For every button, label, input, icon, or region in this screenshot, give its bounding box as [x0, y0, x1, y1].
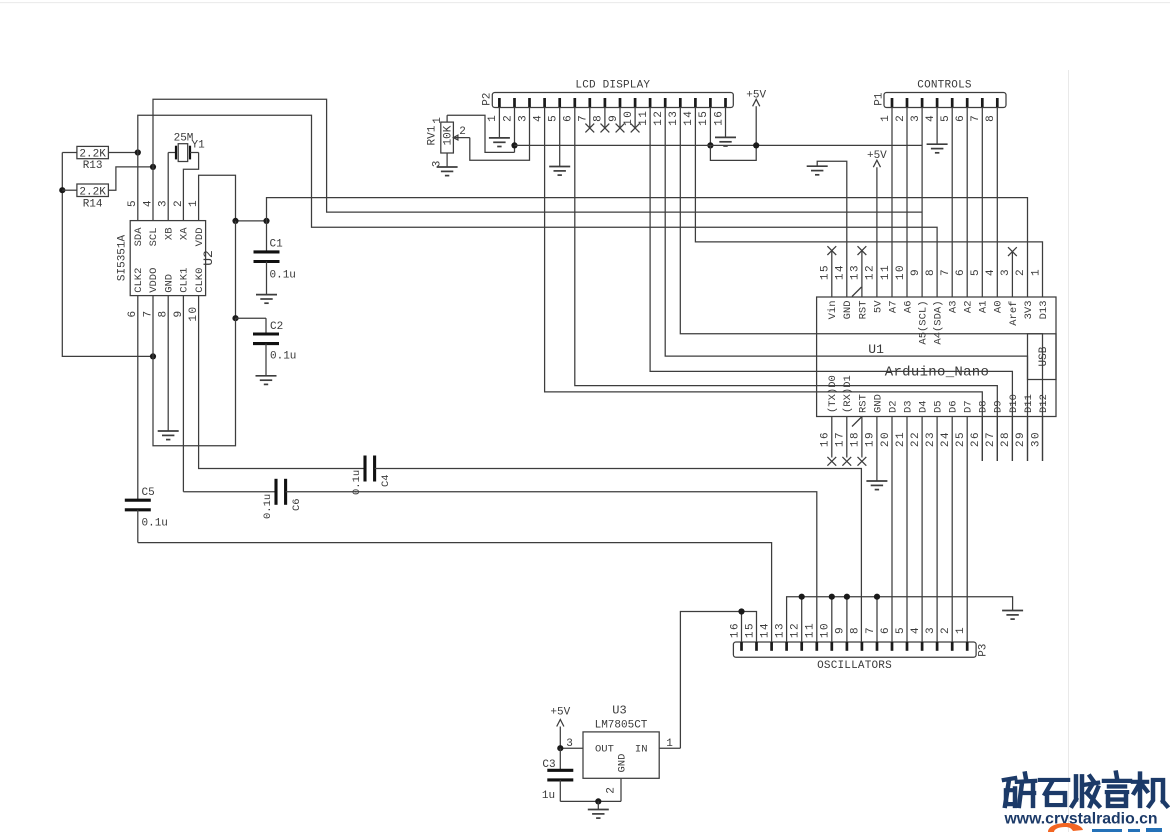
ic U1 Arduino_Nano body	[817, 297, 1056, 417]
P1 pin4 wire	[936, 107, 938, 144]
svg-text:2: 2	[173, 199, 185, 207]
svg-text:D6: D6	[948, 400, 960, 413]
svg-text:5: 5	[127, 199, 139, 207]
svg-text:23: 23	[925, 431, 937, 447]
U3 pin3 lead	[560, 738, 583, 750]
svg-text:15: 15	[820, 264, 832, 280]
U1 RST bottom pin decoration	[852, 417, 862, 427]
svg-text:D2: D2	[887, 400, 899, 413]
svg-text:13: 13	[668, 110, 680, 126]
svg-text:D8: D8	[978, 400, 990, 413]
svg-text:U2: U2	[201, 250, 216, 266]
P1 pin pads	[892, 98, 997, 107]
junction dot U3 out	[557, 745, 563, 751]
wire P3 pin9 to ground bus	[846, 597, 848, 642]
junction dot R14-SCL	[150, 164, 156, 170]
svg-text:C3: C3	[542, 759, 555, 771]
svg-text:5: 5	[895, 626, 907, 634]
U2 pin numbers	[127, 199, 200, 322]
svg-text:7: 7	[578, 114, 590, 122]
U1 pin numbers	[820, 264, 1043, 447]
capacitor C2	[253, 318, 296, 375]
svg-text:11: 11	[805, 622, 817, 638]
svg-text:7: 7	[970, 114, 982, 122]
junction dot P3 pin16	[738, 608, 744, 614]
capacitor C6	[262, 479, 303, 519]
svg-text:2.2K: 2.2K	[79, 186, 106, 198]
P2 pin14 wire to D13	[695, 107, 1042, 297]
wire P3 pin7 to ground bus	[876, 597, 878, 642]
ground U3	[588, 810, 609, 819]
wire C6 to P3 pin11	[286, 492, 817, 642]
svg-text:0.1u: 0.1u	[142, 518, 168, 530]
junction dot P3 pin12	[799, 594, 805, 600]
junction dot U3 ground node	[595, 798, 601, 804]
P2 pin12 wire to D11	[665, 107, 1027, 461]
wire C5 to P3 pin14	[138, 543, 772, 642]
U3 pin2 lead	[606, 778, 622, 801]
U2 pin labels	[133, 227, 206, 293]
wire VDD node to C1 node	[236, 220, 267, 222]
svg-text:RST: RST	[857, 394, 869, 413]
svg-text:9: 9	[608, 114, 620, 122]
svg-text:16: 16	[713, 110, 725, 126]
P1 pin8 wire to A0	[996, 107, 998, 297]
svg-text:2.2K: 2.2K	[79, 149, 106, 161]
svg-text:Vin: Vin	[827, 301, 839, 320]
svg-text:LCD DISPLAY: LCD DISPLAY	[575, 79, 650, 91]
Nano D1 no-connect	[842, 417, 851, 466]
wire P3 pin12 to ground bus	[801, 597, 803, 642]
svg-text:4: 4	[925, 114, 937, 122]
svg-text:1: 1	[188, 199, 200, 207]
svg-text:U3: U3	[612, 704, 626, 718]
svg-text:Aref: Aref	[1008, 301, 1020, 326]
svg-text:12: 12	[790, 622, 802, 638]
ground Nano top GND	[807, 166, 828, 175]
Nano Aref no-connect	[1008, 247, 1017, 297]
wire 3V3 supply run (C1 node to Nano 3V3)	[267, 198, 1028, 297]
svg-text:CLK0: CLK0	[194, 268, 206, 293]
svg-text:27: 27	[985, 431, 997, 447]
svg-text:2: 2	[459, 126, 466, 138]
P3 pin numbers	[729, 622, 967, 638]
svg-text:USB: USB	[1038, 346, 1050, 366]
resistor R13	[62, 146, 138, 171]
svg-text:SDA: SDA	[133, 227, 145, 247]
svg-text:22: 22	[910, 431, 922, 447]
wire VDDO loop	[153, 296, 236, 446]
svg-text:3V3: 3V3	[1023, 301, 1035, 320]
ground below C1	[256, 295, 277, 304]
svg-text:C4: C4	[380, 474, 392, 487]
junction dot C2 node	[232, 315, 238, 321]
junction dot VDDO rail	[150, 353, 156, 359]
ground below U2	[158, 431, 179, 440]
crystal Y1	[168, 133, 205, 162]
svg-text:C5: C5	[142, 487, 155, 499]
P1 pin6 wire to A2	[966, 107, 968, 297]
junction dot +5V rail	[753, 142, 759, 148]
svg-text:Arduino_Nano: Arduino_Nano	[885, 365, 989, 381]
svg-text:VDD: VDD	[194, 228, 206, 247]
Nano D11 pin stub	[1027, 417, 1029, 462]
wire XB pin3	[167, 153, 169, 221]
svg-text:D3: D3	[902, 400, 914, 413]
svg-text:5: 5	[548, 114, 560, 122]
svg-text:16: 16	[729, 622, 741, 638]
svg-text:25: 25	[955, 431, 967, 447]
svg-text:VDDO: VDDO	[148, 268, 160, 293]
svg-text:A0: A0	[993, 301, 1005, 314]
svg-text:4: 4	[142, 199, 154, 207]
svg-text:10K: 10K	[442, 125, 454, 145]
Nano D0 no-connect	[827, 417, 836, 466]
svg-text:1: 1	[666, 738, 673, 750]
P2 pin6 wire to D9	[575, 107, 998, 461]
Nano D12 pin stub	[1042, 417, 1044, 462]
junction dot P2 pin15 rail	[707, 142, 713, 148]
svg-text:5: 5	[940, 114, 952, 122]
svg-text:3: 3	[925, 626, 937, 634]
junction dot C1 node	[263, 218, 269, 224]
svg-text:GND: GND	[617, 754, 629, 773]
svg-text:1: 1	[487, 114, 499, 122]
svg-text:2: 2	[606, 787, 618, 794]
svg-text:(RX)D1: (RX)D1	[842, 375, 854, 413]
P1 pin3 wire to A5	[921, 107, 923, 297]
svg-text:6: 6	[563, 114, 575, 122]
svg-text:A4(SDA): A4(SDA)	[933, 301, 945, 345]
svg-text:P2: P2	[482, 93, 494, 106]
P2 pin15 wire	[709, 107, 711, 145]
svg-text:12: 12	[865, 264, 877, 280]
junction dot P2 pin2 rail	[511, 142, 517, 148]
svg-text:9: 9	[910, 268, 922, 276]
wire VDD pin1 route	[199, 175, 236, 221]
svg-text:11: 11	[880, 264, 892, 280]
svg-text:30: 30	[1030, 431, 1042, 447]
svg-text:15: 15	[698, 110, 710, 126]
svg-text:14: 14	[683, 110, 695, 126]
Nano D9 pin stub	[996, 417, 998, 462]
ground P3 bus	[1002, 611, 1023, 620]
capacitor C5	[125, 487, 168, 543]
P1 pin2 wire to A6	[906, 107, 908, 297]
svg-text:0.1u: 0.1u	[351, 470, 363, 495]
svg-text:9: 9	[835, 626, 847, 634]
svg-text:0.1u: 0.1u	[262, 494, 274, 519]
svg-text:LM7805CT: LM7805CT	[595, 720, 648, 732]
svg-text:RV1: RV1	[426, 125, 438, 145]
svg-text:A7: A7	[887, 301, 899, 314]
svg-text:15: 15	[744, 622, 756, 638]
wire pullup supply rail left vertical	[62, 153, 153, 357]
wire D5 to P3 pin3	[936, 417, 938, 643]
svg-text:OSCILLATORS: OSCILLATORS	[817, 660, 892, 672]
U1 reference	[868, 342, 884, 357]
svg-text:24: 24	[940, 431, 952, 447]
svg-text:D11: D11	[1023, 394, 1035, 413]
svg-text:A1: A1	[978, 301, 990, 314]
svg-text:2: 2	[895, 114, 907, 122]
svg-text:7: 7	[940, 268, 952, 276]
svg-text:GND: GND	[842, 301, 854, 320]
P2 pins 7-10 no-connect	[585, 107, 639, 132]
svg-text:D10: D10	[1008, 394, 1020, 413]
svg-text:+5V: +5V	[550, 707, 570, 719]
wire D7 to P3 pin1	[966, 417, 968, 643]
svg-text:1: 1	[1030, 268, 1042, 276]
P2 pin11 wire to D10	[650, 107, 1012, 461]
ground Nano bottom GND	[866, 481, 887, 490]
junction dot R13-SDA	[135, 149, 141, 155]
wire P3 pin15 supply	[680, 612, 756, 749]
svg-text:IN: IN	[635, 744, 648, 756]
connector P2 body	[482, 79, 734, 107]
P3 pin pads	[742, 642, 968, 651]
svg-text:P1: P1	[873, 92, 885, 106]
ground below C2	[256, 376, 277, 385]
svg-text:3: 3	[910, 114, 922, 122]
wire ground stub U3	[597, 801, 599, 809]
wire C2 tap	[236, 317, 267, 319]
svg-text:6: 6	[880, 626, 892, 634]
svg-text:28: 28	[1000, 431, 1012, 447]
wire D3 to P3 pin5	[906, 417, 908, 643]
svg-text:20: 20	[880, 431, 892, 447]
wire CLK2 to C5	[137, 296, 139, 501]
wire C4 to P3 pin8	[375, 469, 862, 643]
connector P1 body	[873, 79, 1006, 107]
svg-text:2: 2	[502, 114, 514, 122]
svg-text:CONTROLS: CONTROLS	[917, 79, 972, 91]
ground P2 pin1	[489, 138, 510, 147]
svg-text:18: 18	[850, 431, 862, 447]
svg-text:U1: U1	[868, 342, 884, 357]
svg-text:14: 14	[759, 622, 771, 638]
svg-text:GND: GND	[163, 274, 175, 293]
P2 pin4 wire to D8	[545, 107, 983, 461]
power +5V Nano 5V pin	[867, 150, 887, 297]
svg-text:(TX)D0: (TX)D0	[827, 375, 839, 413]
svg-text:D7: D7	[963, 400, 975, 413]
svg-text:3: 3	[1000, 268, 1012, 276]
svg-text:0.1u: 0.1u	[270, 270, 296, 282]
svg-text:C2: C2	[270, 321, 283, 333]
power +5V rail symbol	[746, 89, 766, 145]
page artifact faint vertical line	[1068, 70, 1070, 832]
P2 pin13 wire to D12	[680, 107, 1042, 461]
wire SDA net (U2 pin5 to A4 run)	[138, 115, 937, 297]
svg-text:26: 26	[970, 431, 982, 447]
svg-text:4: 4	[985, 268, 997, 276]
svg-text:17: 17	[835, 431, 847, 447]
svg-text:4: 4	[532, 114, 544, 122]
svg-text:14: 14	[835, 264, 847, 280]
svg-text:CLK1: CLK1	[179, 268, 191, 293]
wire Nano GND top to ground	[817, 161, 847, 297]
svg-text:5V: 5V	[872, 300, 884, 313]
svg-text:R14: R14	[83, 198, 103, 210]
svg-text:6: 6	[955, 114, 967, 122]
wire C3 bottom to U3 GND	[560, 800, 621, 802]
svg-text:D4: D4	[918, 400, 930, 413]
svg-text:C1: C1	[270, 238, 284, 250]
P1 pin numbers	[880, 114, 997, 122]
svg-text:A6: A6	[902, 301, 914, 314]
svg-text:10: 10	[895, 264, 907, 280]
svg-text:A2: A2	[963, 301, 975, 314]
svg-text:RST: RST	[857, 301, 869, 320]
svg-text:13: 13	[774, 622, 786, 638]
svg-text:8: 8	[925, 268, 937, 276]
svg-text:A5(SCL): A5(SCL)	[918, 301, 930, 345]
wire RV1 wiper to P2 pin3	[470, 107, 530, 160]
P2 pin numbers	[487, 110, 725, 126]
ic U2 SI5351A body	[117, 221, 217, 296]
svg-text:1: 1	[432, 117, 444, 124]
svg-text:25M: 25M	[174, 133, 194, 145]
svg-text:29: 29	[1015, 431, 1027, 447]
svg-text:SCL: SCL	[148, 228, 160, 247]
wire RV1 pin1 to P2 pin2	[447, 115, 514, 152]
P2 pin5 wire	[559, 107, 561, 167]
power +5V U3 out	[550, 707, 570, 749]
Nano RST bottom no-connect	[858, 417, 867, 466]
junction dot P3 pin9	[844, 594, 850, 600]
svg-text:P3: P3	[978, 644, 990, 657]
svg-text:D9: D9	[993, 400, 1005, 413]
wire D4 to P3 pin4	[921, 417, 923, 643]
svg-text:+5V: +5V	[867, 150, 887, 162]
ground RV1 pin3	[437, 167, 458, 176]
svg-text:GND: GND	[872, 394, 884, 413]
svg-text:3: 3	[158, 199, 170, 207]
svg-text:13: 13	[850, 264, 862, 280]
svg-text:8: 8	[850, 626, 862, 634]
P1 pin1 wire to A7	[891, 107, 893, 297]
svg-text:11: 11	[638, 110, 650, 126]
svg-text:+5V: +5V	[746, 89, 766, 101]
wire SCL net (U2 pin4 to A5 run)	[153, 99, 922, 220]
svg-text:5: 5	[970, 268, 982, 276]
svg-text:8: 8	[593, 114, 605, 122]
svg-text:XB: XB	[163, 228, 175, 241]
U1 value	[885, 365, 989, 381]
svg-text:2: 2	[1015, 268, 1027, 276]
watermark crystalradio logo	[1004, 773, 1168, 832]
Nano D10 pin stub	[1011, 417, 1013, 462]
svg-text:10: 10	[623, 110, 635, 126]
svg-text:4: 4	[910, 626, 922, 634]
usb connector box U1	[1028, 334, 1057, 380]
svg-text:3: 3	[517, 114, 529, 122]
svg-text:6: 6	[955, 268, 967, 276]
ic U3 LM7805CT body	[583, 704, 659, 779]
svg-text:CLK2: CLK2	[133, 268, 145, 293]
wire Nano GND bottom	[876, 417, 878, 482]
wire CLK0 to C4	[199, 296, 365, 469]
svg-text:Y1: Y1	[192, 140, 206, 152]
svg-text:1: 1	[880, 114, 892, 122]
svg-text:7: 7	[865, 626, 877, 634]
svg-text:C6: C6	[291, 498, 303, 511]
wire P3 pin16 supply	[741, 612, 743, 643]
P2 pin pads	[499, 98, 725, 107]
svg-text:www.crystalradio.cn: www.crystalradio.cn	[1004, 811, 1158, 828]
svg-text:D13: D13	[1038, 301, 1050, 320]
P1 pin7 wire to A1	[981, 107, 983, 297]
Nano RST top no-connect	[858, 246, 867, 297]
wire D2 to P3 pin6	[891, 417, 893, 643]
wire P2 pin15 +5V loop	[710, 145, 756, 160]
svg-text:19: 19	[865, 431, 877, 447]
svg-text:D12: D12	[1038, 394, 1050, 413]
capacitor C4	[351, 456, 392, 496]
junction dot VDD node	[232, 218, 238, 224]
page artifact faint top line	[0, 2, 1170, 4]
svg-text:D5: D5	[933, 400, 945, 413]
svg-text:8: 8	[985, 114, 997, 122]
svg-text:16: 16	[820, 431, 832, 447]
svg-text:R13: R13	[83, 160, 103, 172]
junction dot P3 pin7	[874, 594, 880, 600]
U1 pin labels	[827, 300, 1050, 413]
potentiometer RV1	[426, 115, 470, 167]
svg-text:3: 3	[566, 738, 573, 750]
svg-text:21: 21	[895, 431, 907, 447]
wire CLK1 to C6	[183, 296, 276, 492]
wire P3 pin10 to ground bus	[831, 597, 833, 642]
svg-text:XA: XA	[179, 227, 191, 240]
wire +5V rail	[515, 144, 923, 146]
capacitor C3	[542, 748, 573, 802]
P2 pin16 wire	[725, 107, 727, 137]
junction dot R14 left	[59, 187, 65, 193]
svg-text:OUT: OUT	[595, 744, 614, 756]
P1 pin5 wire to A3	[951, 107, 953, 297]
U3 pin1 lead	[659, 738, 680, 750]
svg-text:SI5351A: SI5351A	[117, 235, 129, 282]
svg-text:2: 2	[940, 626, 952, 634]
wire P3 ground bus	[787, 597, 1013, 642]
junction dot P3 pin10	[829, 594, 835, 600]
svg-text:0.1u: 0.1u	[270, 351, 296, 363]
U1 RST top pin decoration	[852, 287, 862, 297]
svg-text:1: 1	[955, 626, 967, 634]
connector P3 body	[733, 642, 989, 672]
ground P2 pin16	[715, 137, 736, 146]
ground P2 pin5	[549, 167, 570, 176]
svg-text:12: 12	[653, 110, 665, 126]
P2 pin2 wire	[514, 107, 516, 152]
Nano Vin no-connect	[827, 246, 836, 297]
svg-text:1u: 1u	[542, 790, 555, 802]
capacitor C1	[254, 221, 296, 295]
wire VDD node down to C2 node	[235, 221, 237, 318]
wire D6 to P3 pin2	[951, 417, 953, 643]
svg-text:A3: A3	[948, 301, 960, 314]
wire U2 GND pin8	[167, 296, 169, 431]
wire XA pin2 route	[183, 153, 198, 221]
ground P1 pin4	[927, 144, 948, 153]
P2 pin1 wire	[498, 107, 500, 138]
resistor R14	[62, 167, 153, 211]
Nano D8 pin stub	[981, 417, 983, 462]
svg-text:10: 10	[820, 622, 832, 638]
